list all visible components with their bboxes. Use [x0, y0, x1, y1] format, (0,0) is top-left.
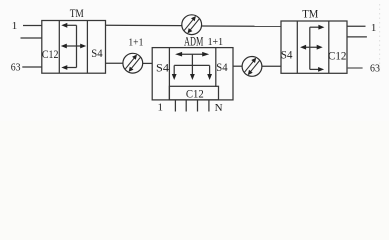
svg-text:S4: S4 — [156, 60, 169, 74]
wire right tributary 1 — [347, 25, 366, 27]
svg-text:S4: S4 — [91, 46, 102, 60]
head TM-right bottom — [318, 67, 324, 72]
head TM-right mid L — [300, 45, 306, 50]
regenerator symbol right — [242, 57, 262, 77]
block TM right box — [281, 21, 347, 73]
head ADM top L — [175, 52, 182, 57]
wire ADM to right regenerator — [233, 65, 242, 67]
regenerator symbol top — [182, 15, 202, 35]
head ADM down left — [172, 74, 177, 80]
svg-text:1: 1 — [371, 22, 377, 34]
head TM-left mid R — [80, 44, 86, 49]
arrow ADM top double — [178, 53, 206, 55]
head TM-left bottom — [61, 65, 67, 70]
svg-text:C12: C12 — [42, 47, 59, 61]
wire regenerator to ADM — [143, 62, 152, 64]
divider ADM mid/S4-right — [215, 48, 217, 87]
wire left tributary 2 — [21, 37, 42, 39]
head TM-right mid R — [317, 45, 323, 50]
svg-text:1: 1 — [12, 20, 17, 32]
arrow TM-left top (points left) — [65, 24, 77, 26]
svg-text:ADM: ADM — [184, 34, 203, 48]
wire ADM center vertical — [191, 54, 193, 65]
arrow TM-right middle double — [303, 46, 319, 48]
svg-text:TM: TM — [70, 6, 84, 20]
arrowheads — [61, 23, 325, 80]
wire top regenerator to TM-right — [202, 25, 281, 27]
arrow TM-right bottom (points right) — [310, 68, 321, 70]
wire left tributary 1 — [23, 25, 42, 27]
tick tributary port d — [208, 100, 210, 112]
arrow ADM down right — [209, 65, 211, 76]
svg-text:63: 63 — [11, 62, 21, 74]
tick tributary port a — [174, 100, 176, 112]
regenerator symbol left (1+1) — [123, 53, 143, 73]
svg-text:S4: S4 — [216, 60, 227, 74]
arrow TM-left bottom (points left) — [65, 67, 77, 69]
svg-text:C12: C12 — [186, 87, 204, 101]
head ADM down right — [207, 74, 212, 80]
arrow ADM down left — [173, 65, 175, 76]
divider TM-left mid/S4 — [86, 21, 88, 74]
svg-text:C12: C12 — [328, 48, 346, 62]
wire left tributary 63 — [22, 66, 42, 68]
divider TM-right S4/mid — [296, 21, 298, 73]
faint scan artifact dotted line — [379, 4, 381, 72]
head ADM down center — [190, 74, 195, 80]
divider TM-left C12/mid — [58, 21, 60, 74]
divider ADM S4-left/mid — [168, 48, 170, 100]
svg-text:TM: TM — [302, 7, 318, 21]
svg-text:S4: S4 — [281, 47, 293, 61]
wire ADM distribution bar — [174, 64, 209, 66]
tick tributary port b — [185, 100, 187, 112]
head TM-left mid L — [61, 44, 67, 49]
wire TM-right internal vertical — [309, 27, 311, 69]
tick tributary port c — [197, 100, 199, 112]
wire TM-left to 1+1 regenerator — [106, 62, 123, 64]
block ADM box — [152, 48, 233, 100]
arrow TM-left middle double — [64, 45, 83, 47]
head TM-left top — [61, 23, 67, 28]
block C12 box inside ADM — [169, 86, 218, 100]
wire right regenerator to TM-right — [262, 65, 281, 67]
wire TM-left internal vertical — [76, 25, 78, 67]
block TM left box — [42, 21, 106, 74]
svg-text:1+1: 1+1 — [208, 36, 224, 48]
arrow TM-right top (points right) — [310, 26, 322, 28]
svg-text:63: 63 — [370, 63, 380, 75]
wire right tributary 2 — [347, 36, 367, 38]
head TM-right top — [318, 25, 324, 30]
divider TM-right mid/C12 — [328, 21, 330, 73]
svg-text:1+1: 1+1 — [128, 36, 143, 48]
svg-text:N: N — [215, 102, 223, 114]
wire top line TM-left to regenerator — [106, 24, 182, 26]
svg-text:1: 1 — [158, 102, 164, 114]
wire right tributary 63 — [347, 67, 363, 69]
arrow ADM down center — [191, 65, 193, 76]
head ADM top R — [202, 52, 209, 57]
